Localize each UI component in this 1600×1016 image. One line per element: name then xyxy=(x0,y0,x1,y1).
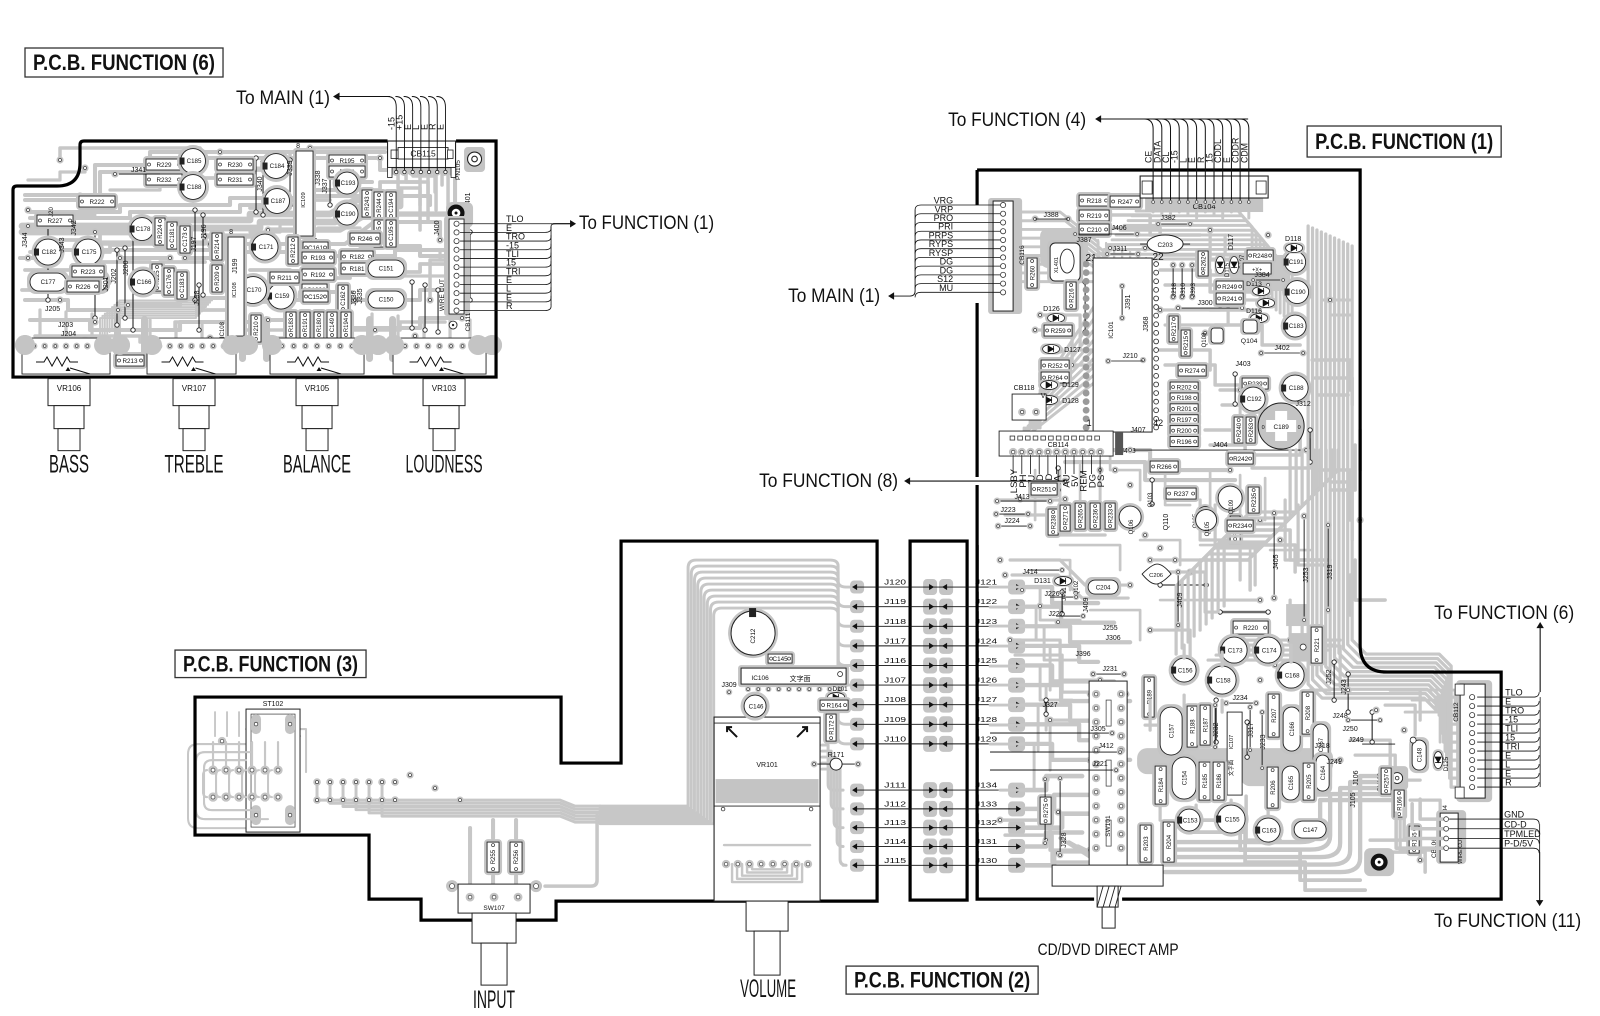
board outline PCB FUNCTION 1 xyxy=(977,170,1501,899)
wire xyxy=(1100,215,1200,235)
svg-text:J205: J205 xyxy=(45,306,60,313)
wire xyxy=(1206,450,1320,624)
wire xyxy=(1330,314,1352,317)
resistor R189 xyxy=(1141,674,1157,720)
wire xyxy=(491,876,495,886)
wire jumper xyxy=(437,290,439,332)
wire xyxy=(1026,776,1082,790)
svg-text:C182: C182 xyxy=(42,249,57,256)
label To FUNCTION (11) xyxy=(1539,824,1541,852)
resistor R263 xyxy=(1243,414,1258,446)
svg-text:R232: R232 xyxy=(156,177,172,184)
svg-text:R242: R242 xyxy=(1233,456,1249,463)
wire xyxy=(990,587,1080,620)
svg-text:VR107: VR107 xyxy=(182,384,207,393)
capacitor C212 xyxy=(728,608,778,658)
svg-text:C162: C162 xyxy=(341,291,347,306)
wire xyxy=(1160,205,1163,215)
svg-text:J109: J109 xyxy=(884,715,906,724)
resistor capacitor C183 xyxy=(174,269,190,302)
wire xyxy=(1318,470,1350,520)
svg-text:D101: D101 xyxy=(833,686,849,693)
svg-text:R182: R182 xyxy=(350,254,366,261)
resistor R201 xyxy=(1167,401,1201,417)
wire xyxy=(600,566,857,808)
diode D xyxy=(825,692,847,703)
svg-text:R263: R263 xyxy=(1249,422,1255,437)
svg-text:J339: J339 xyxy=(287,160,294,175)
svg-text:J388: J388 xyxy=(1044,212,1059,219)
jumper cluster pads over ST102 xyxy=(208,765,217,774)
svg-text:R213: R213 xyxy=(122,358,138,365)
resistor R211 xyxy=(267,269,302,286)
wire xyxy=(600,578,857,813)
diode D xyxy=(1038,380,1060,391)
wire xyxy=(1302,793,1330,796)
svg-text:C206: C206 xyxy=(1149,573,1163,579)
svg-text:C157: C157 xyxy=(1169,723,1175,738)
resistor R219 xyxy=(1076,207,1112,224)
resistor R217 xyxy=(1166,313,1181,345)
wire xyxy=(130,322,225,330)
wire xyxy=(1026,705,1098,721)
wire xyxy=(200,302,285,310)
wire xyxy=(1322,299,1350,302)
wire xyxy=(398,168,420,230)
wire xyxy=(1302,606,1340,686)
svg-text:J243: J243 xyxy=(1341,679,1348,694)
resistor R192 xyxy=(299,266,337,283)
resistor R216 xyxy=(1063,279,1079,312)
svg-text:R208: R208 xyxy=(1306,705,1312,720)
resistor R260 xyxy=(1024,255,1040,291)
wire xyxy=(1178,205,1181,212)
diode D xyxy=(1433,749,1444,771)
resistor R182 xyxy=(338,248,376,265)
svg-text:J405: J405 xyxy=(1273,554,1280,569)
svg-text:V: V xyxy=(1041,393,1046,400)
resistor R224 xyxy=(152,215,168,248)
wire xyxy=(1240,390,1280,420)
resistor R200 xyxy=(1167,423,1201,439)
wire xyxy=(1188,450,1302,642)
svg-text:R196: R196 xyxy=(1177,439,1193,446)
svg-text:J210: J210 xyxy=(1123,353,1138,360)
wire xyxy=(1285,500,1320,560)
resistor R202 xyxy=(1167,379,1201,395)
svg-text:E: E xyxy=(436,124,446,130)
mounting pad xyxy=(446,202,473,228)
wire xyxy=(1022,247,1118,428)
wire xyxy=(822,769,846,865)
svg-text:J118: J118 xyxy=(884,617,906,626)
wire xyxy=(274,712,276,736)
wire jumper xyxy=(202,215,204,295)
svg-text:IC108: IC108 xyxy=(220,321,226,338)
wire xyxy=(260,324,263,338)
svg-text:J221: J221 xyxy=(1093,761,1108,768)
capacitor C164 xyxy=(1313,752,1332,794)
svg-text:To MAIN (1): To MAIN (1) xyxy=(236,88,330,109)
svg-text:42: 42 xyxy=(1153,418,1163,428)
resistor R191 xyxy=(297,309,313,341)
resistor capacitor C145 xyxy=(765,651,795,666)
wire xyxy=(1026,665,1114,681)
svg-text:J305: J305 xyxy=(1091,726,1106,733)
wire xyxy=(1069,842,1104,862)
wire jumper xyxy=(198,285,200,330)
wire xyxy=(1290,600,1330,680)
svg-text:R266: R266 xyxy=(1157,464,1173,471)
svg-text:CB116: CB116 xyxy=(1019,245,1026,265)
switch SW107 xyxy=(446,880,458,892)
svg-text:Q102: Q102 xyxy=(1074,580,1080,595)
resistor R184 xyxy=(1152,763,1169,807)
junction row J116/J125 xyxy=(850,659,864,672)
wire jumper xyxy=(1169,716,1171,752)
wire xyxy=(204,760,246,810)
svg-text:WIRE CUT: WIRE CUT xyxy=(1458,836,1464,864)
resistor capacitor C161 xyxy=(300,239,331,256)
svg-text:CB118: CB118 xyxy=(1014,385,1035,392)
wire xyxy=(102,300,198,338)
junction row J107/J126 xyxy=(850,679,864,692)
svg-text:C163: C163 xyxy=(1262,827,1277,834)
resistor capacitor C176 xyxy=(161,265,177,298)
PCB FUNCTION 6 board: pads xyxy=(15,335,35,355)
wire xyxy=(1124,225,1264,301)
capacitor C156 xyxy=(1169,655,1200,686)
svg-text:J120: J120 xyxy=(884,578,906,587)
wire xyxy=(752,864,782,869)
svg-text:C183: C183 xyxy=(180,278,186,293)
wire xyxy=(1186,205,1189,215)
wire xyxy=(1240,638,1340,641)
wire xyxy=(413,168,436,210)
wire xyxy=(822,763,843,846)
resistor R248 xyxy=(1244,247,1276,264)
node J409 xyxy=(1177,572,1179,625)
capacitor C188 xyxy=(177,171,209,203)
resistor R231 xyxy=(214,171,256,188)
board outline PCB FUNCTION 3 xyxy=(195,541,877,920)
svg-text:R251: R251 xyxy=(1037,486,1053,493)
resistor R223 xyxy=(69,263,107,280)
svg-text:C166: C166 xyxy=(137,279,152,286)
svg-text:J116: J116 xyxy=(884,656,906,665)
svg-text:VR106: VR106 xyxy=(57,384,82,393)
svg-text:J218: J218 xyxy=(1171,283,1178,297)
wire xyxy=(1096,259,1292,322)
svg-text:J233: J233 xyxy=(1260,734,1267,749)
wire xyxy=(1129,252,1131,414)
wire xyxy=(1330,236,1460,742)
svg-text:D118: D118 xyxy=(1285,236,1301,243)
resistor R243 xyxy=(359,187,375,220)
wire xyxy=(1298,505,1330,565)
wire xyxy=(1148,700,1151,730)
wire xyxy=(1224,450,1338,606)
wire jumper xyxy=(469,232,471,300)
wire jumper xyxy=(194,210,196,300)
junction row J111/J134 xyxy=(850,784,864,797)
capacitor C206 xyxy=(1142,564,1171,584)
wire jumper xyxy=(94,232,96,318)
wire xyxy=(370,314,373,338)
svg-text:CD/DVD DIRECT AMP: CD/DVD DIRECT AMP xyxy=(1038,941,1179,959)
wire xyxy=(25,300,120,310)
wire xyxy=(1108,245,1280,313)
svg-text:Q109: Q109 xyxy=(1229,499,1235,514)
wire xyxy=(174,322,177,338)
wire xyxy=(1335,238,1461,751)
svg-text:R229: R229 xyxy=(156,162,172,169)
wire xyxy=(1010,640,1100,680)
svg-text:J198: J198 xyxy=(194,290,201,305)
svg-text:J224: J224 xyxy=(1005,518,1020,525)
svg-text:D128: D128 xyxy=(1062,398,1079,405)
svg-text:C203: C203 xyxy=(1157,242,1173,249)
svg-text:INPUT: INPUT xyxy=(473,986,515,1014)
resistor capacitor C162 xyxy=(335,282,351,315)
wire xyxy=(1248,545,1295,572)
wire xyxy=(1239,475,1242,515)
wire xyxy=(220,152,290,168)
svg-text:J306: J306 xyxy=(1106,635,1121,642)
svg-text:WIRE CUT: WIRE CUT xyxy=(439,279,446,311)
wire xyxy=(1060,838,1098,862)
svg-text:J396: J396 xyxy=(1076,651,1091,658)
wire xyxy=(1330,445,1355,490)
wire xyxy=(268,770,272,797)
wire jumper xyxy=(289,160,291,205)
connector CB104 xyxy=(1145,198,1263,212)
wire xyxy=(822,745,843,790)
svg-text:J252: J252 xyxy=(1326,669,1333,684)
svg-text:D126: D126 xyxy=(1043,306,1060,313)
wire xyxy=(1160,599,1200,602)
svg-text:C192: C192 xyxy=(1247,396,1262,403)
wire xyxy=(990,705,1038,750)
wire jumper xyxy=(1246,722,1248,757)
svg-text:MU: MU xyxy=(939,283,953,293)
wire xyxy=(1200,450,1314,630)
wire xyxy=(1026,851,1094,865)
svg-text:R205: R205 xyxy=(1307,774,1313,789)
wire xyxy=(1162,572,1268,612)
svg-text:J311: J311 xyxy=(1113,246,1128,253)
svg-text:J319: J319 xyxy=(1327,564,1334,579)
svg-text:R214: R214 xyxy=(215,239,221,254)
svg-text:PN105: PN105 xyxy=(455,160,462,180)
svg-text:J199: J199 xyxy=(232,258,239,273)
PCB FUNCTION 1 board: pads xyxy=(1032,215,1039,222)
wire xyxy=(1100,254,1288,319)
resistor capacitor C195 xyxy=(383,217,399,250)
resistor R230 xyxy=(214,156,256,173)
svg-text:To FUNCTION (8): To FUNCTION (8) xyxy=(759,471,898,492)
wire xyxy=(396,316,399,338)
wire xyxy=(1026,814,1106,828)
wire xyxy=(1317,230,1460,715)
wire xyxy=(600,560,857,806)
svg-text:Q106: Q106 xyxy=(1129,519,1135,534)
wire xyxy=(433,168,437,192)
wire xyxy=(1026,607,1114,623)
wire xyxy=(1412,804,1446,829)
svg-text:文字面: 文字面 xyxy=(790,674,811,683)
wire xyxy=(1026,646,1098,662)
resistor capacitor C210 xyxy=(1076,221,1112,238)
svg-text:VR105: VR105 xyxy=(305,384,330,393)
svg-text:R223: R223 xyxy=(80,269,96,276)
wire xyxy=(1145,258,1147,406)
svg-text:J201: J201 xyxy=(103,276,110,291)
wire jumper xyxy=(1057,468,1059,490)
wire xyxy=(1020,560,1070,590)
pad PN103 xyxy=(1386,766,1408,790)
wire xyxy=(1165,782,1398,865)
wire xyxy=(1246,796,1280,840)
svg-text:J384: J384 xyxy=(1255,272,1270,279)
resistor R172 xyxy=(823,711,839,744)
svg-text:C204: C204 xyxy=(1096,584,1111,591)
wire xyxy=(1209,470,1212,510)
wire xyxy=(255,770,259,797)
resistor R213 xyxy=(113,352,147,369)
wire xyxy=(1412,700,1448,730)
wire xyxy=(242,770,246,797)
wire xyxy=(30,320,260,330)
wire xyxy=(1099,470,1102,500)
wire xyxy=(1005,515,1105,535)
resistor capacitor C152 xyxy=(300,288,331,305)
wire xyxy=(1213,205,1216,215)
diode D xyxy=(1040,344,1062,355)
wire jumper xyxy=(1309,430,1311,462)
svg-text:8: 8 xyxy=(296,143,300,150)
resistor R251 xyxy=(1028,480,1060,498)
resistor R235 xyxy=(1245,484,1262,516)
wire xyxy=(990,626,1078,660)
transistor Q104 xyxy=(1240,318,1260,335)
capacitor C158 xyxy=(1205,663,1240,698)
capacitor C163 xyxy=(1253,815,1284,846)
svg-text:J309: J309 xyxy=(721,682,736,689)
wire xyxy=(214,712,216,736)
wire xyxy=(1267,808,1270,820)
svg-text:D131: D131 xyxy=(1034,578,1051,585)
wire xyxy=(96,245,130,252)
wire xyxy=(1212,450,1326,618)
wire xyxy=(1215,505,1255,585)
wire xyxy=(310,146,392,150)
resistor R193 xyxy=(299,249,337,266)
svg-text:R256: R256 xyxy=(514,849,520,864)
wire xyxy=(1215,325,1300,345)
node J319 xyxy=(1327,525,1329,610)
wire xyxy=(1105,228,1160,248)
wire xyxy=(422,318,425,338)
svg-text:C195: C195 xyxy=(389,226,395,241)
svg-text:C147: C147 xyxy=(1303,827,1318,834)
volume shaft xyxy=(746,901,788,931)
svg-text:R217: R217 xyxy=(1172,321,1178,336)
wire xyxy=(355,290,458,300)
svg-text:P.C.B. FUNCTION (1): P.C.B. FUNCTION (1) xyxy=(1315,129,1493,154)
wire xyxy=(245,324,340,330)
wire xyxy=(1182,450,1296,648)
svg-text:VR101: VR101 xyxy=(756,762,778,769)
svg-text:R219: R219 xyxy=(1087,213,1103,220)
svg-text:IC107: IC107 xyxy=(1229,735,1235,749)
label To FUNCTION (8) xyxy=(907,480,1065,482)
wire xyxy=(1404,808,1446,838)
wire jumper xyxy=(424,285,426,330)
svg-text:R265: R265 xyxy=(1078,508,1084,523)
svg-text:CB112: CB112 xyxy=(1453,702,1460,722)
svg-text:R241: R241 xyxy=(1222,296,1238,303)
svg-text:J409: J409 xyxy=(1177,592,1184,607)
IC IC101 xyxy=(1093,258,1152,432)
svg-text:J368: J368 xyxy=(1143,316,1150,331)
wire xyxy=(1230,640,1275,665)
potentiometer VR103 xyxy=(423,379,465,406)
resistor R249 xyxy=(1213,278,1246,295)
svg-text:GND: GND xyxy=(1504,810,1525,820)
crystal X402 xyxy=(1240,260,1274,277)
svg-text:J317: J317 xyxy=(1248,722,1255,737)
svg-text:J119: J119 xyxy=(884,597,906,606)
wire xyxy=(345,182,420,190)
wire xyxy=(742,864,792,876)
wire xyxy=(1247,205,1250,218)
wire xyxy=(1160,270,1260,292)
svg-text:C185: C185 xyxy=(187,158,202,165)
svg-text:R262: R262 xyxy=(1201,256,1207,271)
wire xyxy=(250,167,290,170)
junction row J113/J132 xyxy=(850,821,864,834)
wire xyxy=(251,742,253,765)
wire xyxy=(1034,470,1037,520)
wire xyxy=(1026,685,1130,701)
svg-text:J342: J342 xyxy=(71,220,78,235)
wire xyxy=(1152,205,1155,212)
capacitor C153 xyxy=(1175,806,1204,835)
wire xyxy=(252,735,300,737)
wire xyxy=(1300,720,1340,760)
capacitor C166 xyxy=(128,267,159,298)
wire xyxy=(545,815,597,886)
wire xyxy=(1210,230,1250,290)
svg-text:J117: J117 xyxy=(884,636,906,645)
resistor R244 xyxy=(371,189,387,222)
IC U-IC108 xyxy=(225,234,247,339)
svg-text:R274: R274 xyxy=(1185,368,1201,375)
svg-text:J337: J337 xyxy=(322,178,329,193)
wire xyxy=(204,760,260,810)
wire xyxy=(1090,610,1140,640)
svg-text:C158: C158 xyxy=(1216,677,1231,684)
svg-text:C191: C191 xyxy=(1289,259,1304,266)
svg-text:C165: C165 xyxy=(1289,775,1295,790)
resistor R185 xyxy=(1196,759,1213,803)
svg-text:C168: C168 xyxy=(1285,672,1300,679)
wire xyxy=(1165,788,1398,857)
wire xyxy=(200,324,203,338)
wire xyxy=(1358,430,1362,470)
wire xyxy=(128,298,235,305)
